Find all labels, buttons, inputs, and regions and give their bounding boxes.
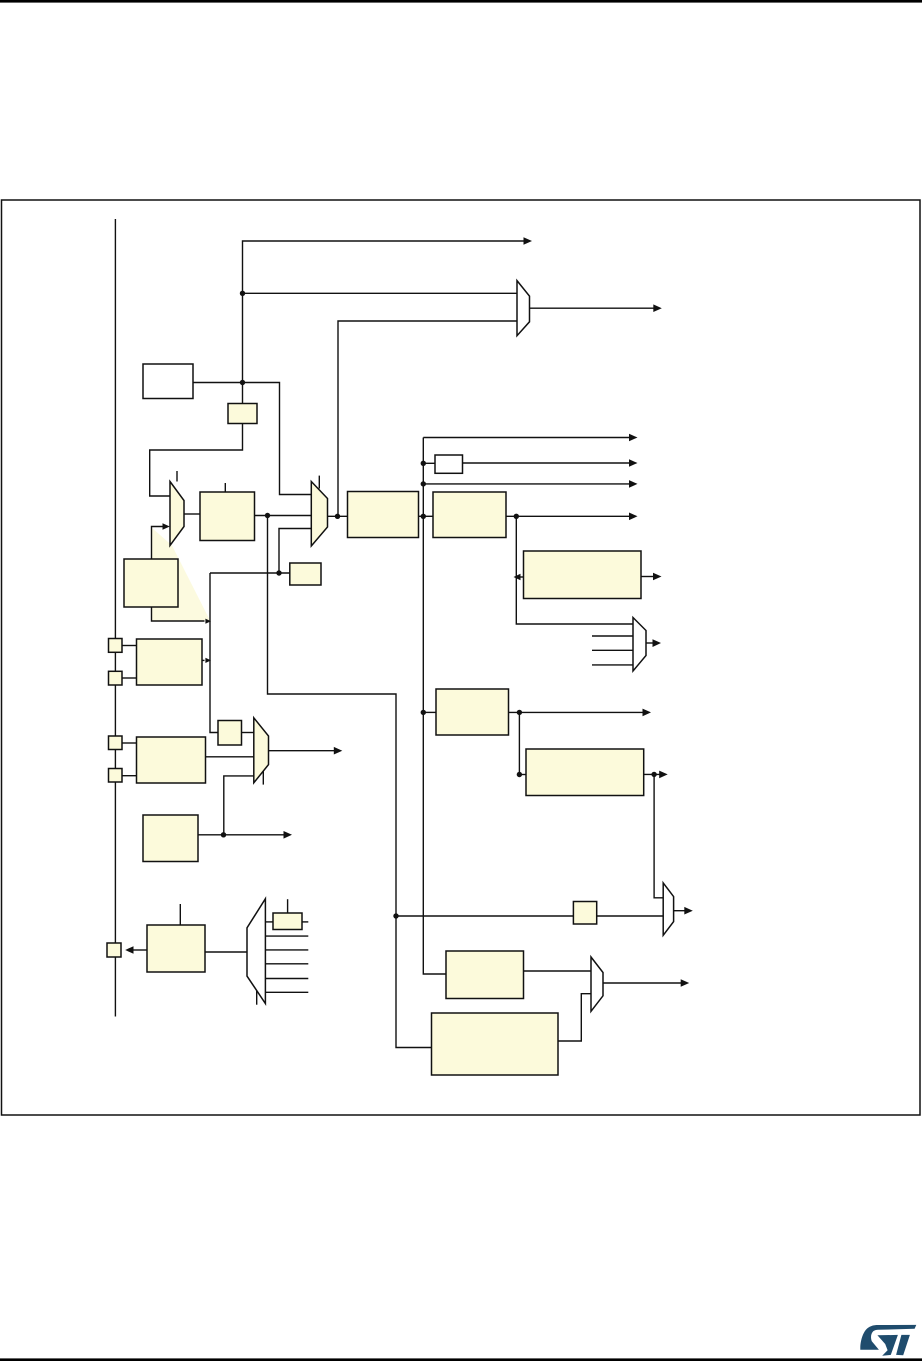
wire: box J output to bus square S5	[131, 949, 147, 951]
arrowhead mux M3 output	[334, 747, 343, 755]
box J	[147, 925, 205, 972]
select tick above mux M2	[318, 476, 320, 489]
wire: node to mux M0 upper input	[243, 292, 518, 294]
mux M5	[663, 883, 673, 935]
wire: box H input	[519, 774, 526, 776]
junction node at box G input	[421, 710, 426, 715]
arrowhead mux M0 output	[653, 304, 662, 312]
wire: box D2 output arrow	[506, 515, 630, 517]
mux M3	[254, 718, 269, 783]
arrowhead funnel output	[653, 639, 662, 647]
wire: W1 box to vertical, down to mux M2 upper input	[193, 383, 311, 495]
wire: mux M5 output arrow	[674, 910, 687, 912]
wire: long line to box M and mux M5 lower input	[396, 915, 573, 917]
wire: S2 to box B	[122, 677, 137, 679]
wire: S4 to box C	[122, 775, 137, 777]
wire: mux M4 input stubs	[265, 921, 273, 923]
box D1	[348, 492, 419, 538]
wire: mux M4 output to box J	[205, 951, 247, 953]
wire: horizontal to SB2, vertical up to mux M2 lower input	[210, 572, 290, 574]
wire: from D2 node down to funnel input	[516, 516, 633, 624]
wire: W2 box input	[423, 462, 435, 464]
wire: box H output arrow	[644, 773, 662, 775]
wire: box C output to mux M3	[206, 756, 254, 758]
bus square S5	[107, 943, 121, 957]
wire: box B output stub	[202, 659, 205, 661]
box B	[137, 639, 203, 685]
bottom rule	[0, 1358, 922, 1361]
select tick below mux M3	[262, 769, 264, 785]
arrowhead branch 1	[629, 434, 638, 442]
wire: node down from G output to H input	[518, 712, 520, 774]
box K	[273, 913, 302, 930]
box W2	[435, 455, 463, 473]
arrowhead box F output	[653, 573, 662, 581]
bus square S2	[109, 671, 123, 685]
wire: mux M3 third input from box I node	[224, 776, 254, 835]
box M	[573, 902, 596, 925]
wire: mux M6 output arrow	[603, 982, 684, 984]
wire: mux M0 output arrow	[530, 307, 657, 309]
wire: box G input	[423, 711, 436, 713]
arrowhead top output	[524, 237, 533, 245]
arrowhead left into bus square S5	[125, 946, 133, 954]
wire: node down to mux M5 upper input	[654, 774, 663, 897]
arrowhead box G output	[643, 709, 652, 717]
box I	[143, 815, 198, 862]
beam highlight from mux M1	[152, 528, 211, 621]
box A	[200, 492, 255, 541]
arrowhead mux M6 output	[681, 979, 690, 987]
wire: box I output arrow	[198, 834, 287, 836]
bus square S4	[109, 769, 123, 783]
wire: box L output up to mux M6 lower input	[558, 994, 591, 1041]
logo: S swoosh and top bar	[860, 1325, 916, 1350]
box P	[218, 721, 242, 746]
box H	[526, 749, 644, 796]
wire: vertical x210 down to box P input	[210, 573, 218, 733]
wire: third branch arrow	[423, 483, 630, 485]
small box SB2	[290, 563, 321, 585]
wire: mux M0 lower input from vertical	[338, 321, 518, 516]
top rule	[0, 0, 922, 3]
wire: S3 to box C	[122, 742, 137, 744]
wire: mux M2 output to box D1	[328, 515, 348, 517]
junction node on third branch	[421, 481, 426, 486]
junction node on long vertical	[393, 913, 398, 918]
arrowhead into vertical tap lower	[205, 658, 211, 663]
junction node at W2 input	[421, 461, 426, 466]
arrowhead box H output	[659, 771, 668, 779]
wire: SB1 bottom to mux M1 upper input	[150, 424, 243, 497]
junction node on box G output	[517, 710, 522, 715]
junction node between D1 and D2	[421, 514, 426, 519]
wire: box N output to mux M6	[524, 970, 592, 972]
small box SB1	[228, 404, 257, 424]
logo: S middle chevron	[877, 1335, 898, 1356]
wire: mux M1 output to box A	[184, 513, 200, 515]
mux M1	[170, 482, 184, 546]
wire: S1 to box B	[122, 645, 137, 647]
box F	[524, 551, 642, 599]
junction node on D2 output	[514, 514, 519, 519]
arrowhead branch 3	[629, 480, 638, 488]
bus square S3	[109, 736, 123, 750]
wire: box A output to mux M2 middle input	[255, 515, 312, 517]
arrowhead mux M5 output	[684, 907, 693, 915]
select tick below mux M4	[256, 990, 258, 1005]
wire: box G output arrow	[509, 711, 646, 713]
wire: mux M3 output arrow	[269, 750, 338, 752]
mux M4	[247, 899, 265, 1004]
ST logo	[860, 1325, 916, 1356]
wire: funnel stub inputs	[592, 635, 633, 637]
select tick above box A	[224, 483, 226, 492]
box W1	[143, 364, 193, 399]
junction node at W1 wire cross	[240, 380, 245, 385]
internal data bus vertical line	[114, 219, 116, 1017]
junction node on box I output	[221, 832, 226, 837]
wire: W2 box output arrow	[463, 462, 631, 464]
junction node on mux M2 output	[335, 514, 340, 519]
junction node on box H output	[651, 772, 656, 777]
wire: box P output to mux M3	[242, 732, 254, 734]
box ACC	[124, 559, 178, 607]
figure frame	[2, 200, 921, 1115]
box C	[137, 737, 206, 783]
arrowhead into mux M1	[163, 523, 170, 530]
wire: box F output arrow	[641, 576, 656, 578]
mux M0	[517, 281, 530, 336]
junction node on top feed line	[240, 291, 245, 296]
junction node at box H input	[517, 772, 522, 777]
wire: ACC top to mux M1 arrow input	[152, 527, 164, 560]
box N	[446, 951, 524, 999]
arrowhead branch 2	[629, 459, 638, 467]
wire: funnel output arrow	[646, 642, 655, 644]
junction node on box A output	[265, 513, 270, 518]
box L	[432, 1013, 559, 1075]
wire: box F left tap	[517, 576, 524, 578]
arrowhead left into box F tap	[514, 574, 521, 581]
select tick above mux M1	[176, 471, 178, 482]
select tick above box K	[287, 899, 289, 913]
wire: column x423 with arrow branches	[423, 438, 446, 975]
junction node below mux M2	[276, 570, 281, 575]
arrowhead box I output	[284, 831, 293, 839]
mux M2	[311, 482, 327, 547]
logo: T stem	[896, 1335, 910, 1355]
select tick above box J	[179, 904, 181, 925]
bus square S1	[109, 639, 123, 653]
mux M6	[591, 957, 603, 1011]
arrowhead into vertical tap upper	[205, 619, 211, 624]
wire: ACC bottom to bus-tap arrow	[152, 607, 205, 621]
wire: long path from box A node down right and to box L input	[268, 516, 432, 1048]
funnel FN	[633, 618, 646, 672]
arrowhead branch 4	[629, 513, 638, 521]
wire: SB1 top up to top arrow line	[243, 241, 529, 404]
wire: box D1 to box D2	[419, 515, 434, 517]
box D2	[433, 492, 506, 538]
box G	[436, 689, 509, 735]
